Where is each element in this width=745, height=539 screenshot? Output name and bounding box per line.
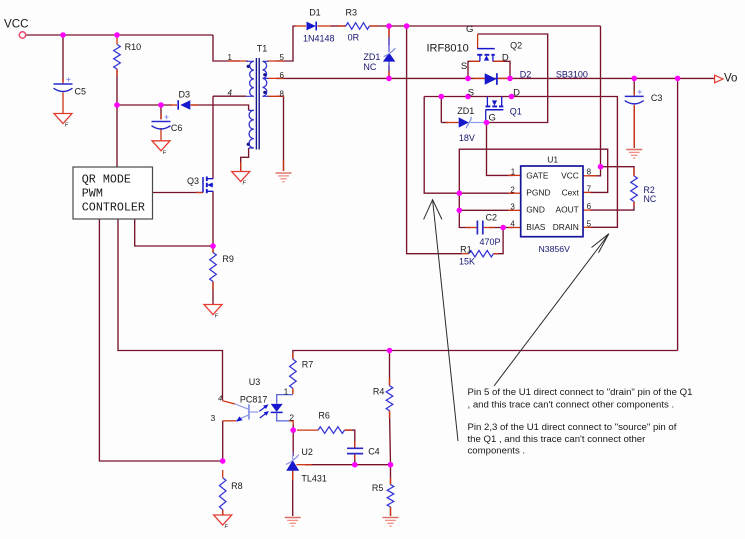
node gate line junction — [484, 120, 490, 126]
lead U1 pin 4 — [508, 227, 521, 229]
resistor R1 — [469, 250, 494, 257]
wire U1 pin1 GATE to gate line junction — [487, 123, 514, 176]
diode D1 1N4148 — [307, 22, 317, 31]
lead R9 bottom — [212, 282, 214, 291]
lead U1 pin 5 — [583, 226, 591, 228]
lead R1 right — [493, 253, 498, 255]
wire feedback line to R7 — [293, 351, 678, 360]
lead Q2 gate — [477, 34, 479, 49]
svg-text:Vo: Vo — [724, 72, 737, 84]
lead D3 anode — [191, 104, 199, 106]
wire R6 node down to TL431 cathode — [292, 430, 294, 456]
node U1 VCC junction — [598, 164, 604, 170]
lead TL431 anode — [292, 471, 294, 480]
wire TL431 ref line to R4/R5 junction — [305, 464, 391, 466]
transformer T1 phase dots — [247, 65, 250, 68]
transformer T1 primary leads — [246, 61, 254, 96]
resistor R6 — [318, 427, 344, 434]
lead U1 pin 3 — [508, 209, 521, 211]
lead R1 left — [462, 253, 469, 255]
transformer T1 primary winding pins 1-4 — [250, 61, 254, 96]
lead U1 pin 2 — [508, 192, 521, 194]
svg-text:R8: R8 — [231, 481, 243, 491]
lead C2 left — [466, 227, 477, 229]
capacitor C4 — [347, 448, 363, 453]
svg-text:GND: GND — [526, 204, 545, 214]
node Q2 drain junction — [507, 76, 513, 82]
lead R7 bottom — [292, 388, 294, 394]
ground TL431 earth — [285, 518, 301, 527]
wire VCC node right to R2 top — [601, 167, 635, 176]
wire PWM box to Q3 gate — [153, 192, 204, 194]
svg-text:R4: R4 — [373, 387, 385, 397]
node R10 bottom junction — [114, 102, 120, 108]
wire ZD1 NC vertical top lead — [388, 26, 390, 45]
lead D2 cathode — [498, 77, 507, 79]
svg-text:Cext: Cext — [562, 188, 580, 198]
lead R8 top — [222, 470, 224, 478]
node R8 junction — [220, 458, 226, 464]
wire x406 vertical from top rail down to R1 line — [407, 26, 462, 254]
svg-text:1: 1 — [511, 168, 516, 177]
svg-text:1: 1 — [284, 387, 289, 397]
resistor R8 — [219, 478, 226, 510]
svg-text:VCC: VCC — [4, 18, 28, 31]
svg-text:T1: T1 — [257, 44, 268, 54]
svg-text:6: 6 — [587, 202, 592, 211]
lead R6 left — [297, 429, 318, 431]
wire U1 pin8 VCC node — [590, 167, 601, 176]
wire TL431 anode to earth — [292, 471, 294, 516]
svg-text:BIAS: BIAS — [526, 222, 545, 232]
zener ZD1 18V — [459, 117, 484, 128]
svg-text:470P: 470P — [480, 237, 501, 247]
resistor R5 — [387, 485, 394, 507]
lead T1 pin5 — [268, 60, 285, 62]
lead T1 pin6 — [268, 77, 285, 79]
wire T1 pin 4 line — [213, 95, 246, 97]
resistor R10 — [114, 45, 121, 70]
node VCC terminal — [19, 32, 25, 38]
lead Q2 source — [470, 60, 480, 62]
wire T1 pin 5 up to D1 — [276, 26, 296, 61]
lead R4 top — [389, 378, 391, 386]
ground C5 — [54, 114, 72, 129]
arrow to source trace — [424, 200, 458, 441]
wire R1 right lead up to BIAS junction — [493, 228, 503, 254]
lead C3 bottom — [633, 105, 635, 147]
svg-text:NC: NC — [644, 194, 657, 204]
lead opto emitter — [223, 420, 236, 422]
resistor R2 — [631, 176, 638, 202]
wire D3 anode to aux winding top — [191, 105, 249, 110]
wire Q2 gate loop to gate line — [478, 34, 548, 123]
svg-text:, and this trace can't connect: , and this trace can't connect other com… — [468, 400, 675, 411]
ground C6 — [152, 141, 170, 156]
wire R9 bottom to ground — [212, 282, 214, 305]
svg-text:3: 3 — [510, 202, 515, 211]
svg-text:the Q1 , and this trace can't: the Q1 , and this trace can't connect ot… — [468, 434, 647, 445]
svg-text:N3856V: N3856V — [539, 244, 571, 254]
wire opto emitter down to R8 node — [222, 421, 224, 461]
node R4/R5 junction — [388, 462, 394, 468]
svg-text:TL431: TL431 — [301, 474, 327, 484]
TL431 U2 symbol — [286, 452, 299, 471]
node opto-2/R6 junction — [290, 427, 296, 433]
lead D3 cathode — [170, 104, 177, 106]
svg-text:6: 6 — [280, 71, 285, 80]
svg-text:D: D — [502, 53, 509, 64]
ground T1 pin8 earth — [276, 173, 292, 182]
lead Q3 gate — [196, 192, 203, 194]
wire C6 branch — [160, 105, 162, 119]
lead R3 right — [369, 25, 378, 27]
node R4 top junction — [387, 348, 393, 354]
capacitor C2 — [477, 221, 482, 235]
svg-text:2: 2 — [510, 185, 515, 194]
wire R5 junction down — [390, 465, 392, 485]
wire PWM box to opto collector line — [118, 219, 223, 401]
lead C6 top — [160, 114, 162, 120]
transformer T1 aux leads — [249, 110, 254, 148]
svg-text:5: 5 — [280, 53, 285, 62]
wire ZD1 18V left lead — [441, 122, 448, 124]
lead C5 bottom — [62, 93, 64, 114]
svg-text:SB3100: SB3100 — [556, 70, 588, 80]
svg-text:1: 1 — [228, 53, 233, 62]
resistor R7 — [290, 359, 297, 388]
wire R4 bottom to junction — [390, 411, 391, 465]
svg-text:C4: C4 — [368, 447, 380, 457]
resistor R4 — [386, 386, 393, 411]
lead opto LED cathode pin2 — [289, 421, 294, 425]
transistor Q1 IRF8010 — [486, 97, 504, 123]
wire C4 bottom to ref line — [354, 454, 356, 464]
wire R9 junction left to PWM box bottom — [135, 219, 213, 246]
opto U3 transistor — [235, 404, 258, 422]
wire C3 branch down — [633, 78, 635, 94]
node R1 feed junction — [404, 23, 410, 29]
wire R6 right lead down to C4 — [345, 430, 355, 447]
svg-text:CONTROLER: CONTROLER — [82, 200, 145, 214]
lead R5 bottom — [390, 507, 392, 516]
transformer T1 secondary bottom winding pins 6-8 — [263, 78, 267, 96]
node Q1 source junction — [465, 94, 471, 100]
capacitor C6 — [152, 115, 171, 129]
wire top rail down to U1 VCC node — [600, 26, 602, 167]
wire VCC rail down to T1 pin 1 — [213, 35, 240, 61]
svg-text:S: S — [468, 87, 474, 98]
ground R5 earth — [383, 518, 399, 527]
svg-text:U3: U3 — [249, 377, 261, 387]
svg-text:VCC: VCC — [561, 170, 579, 180]
lead D2 anode — [473, 77, 485, 79]
lead D1 anode — [295, 25, 306, 27]
transistor Q2 IRF8010 — [477, 49, 495, 62]
svg-text:QR MODE: QR MODE — [82, 172, 131, 186]
diode D3 — [178, 100, 190, 109]
svg-text:1N4148: 1N4148 — [303, 34, 335, 44]
transformer T1 secondary leads — [263, 61, 269, 96]
wire PGND junction down through GND to BIAS line — [459, 193, 471, 227]
transformer T1 core — [256, 58, 259, 150]
svg-text:DRAIN: DRAIN — [553, 222, 579, 232]
wire source trace to U1 pin 2 — [424, 97, 513, 194]
svg-text:R3: R3 — [346, 8, 358, 18]
wire aux winding bottom jog to ground — [241, 148, 249, 171]
svg-text:D3: D3 — [179, 90, 191, 100]
wire Q2 drain corner down to output line — [493, 61, 510, 78]
svg-text:R6: R6 — [318, 411, 330, 421]
svg-text:IRF8010: IRF8010 — [427, 43, 469, 55]
svg-text:Q3: Q3 — [187, 176, 199, 186]
node ZD1-18V / S-line junction — [439, 94, 445, 100]
lead R6 right — [345, 429, 353, 431]
lead opto collector — [223, 401, 236, 404]
wire opto LED cathode down to R6 node — [292, 424, 294, 430]
svg-text:U1: U1 — [547, 155, 558, 165]
svg-text:Q1: Q1 — [510, 107, 522, 117]
svg-text:Pin 2,3 of the U1 direct conne: Pin 2,3 of the U1 direct connect to "sou… — [468, 422, 677, 433]
wire R5 bottom to earth — [390, 507, 392, 516]
lead aux winding ground — [240, 162, 242, 171]
lead R4 bottom — [389, 411, 391, 418]
QR MODE PWM CONTROLER box — [73, 167, 153, 219]
svg-text:ZD1: ZD1 — [457, 106, 474, 116]
node Vo terminal arrow — [715, 75, 723, 83]
svg-text:AOUT: AOUT — [556, 204, 579, 214]
svg-text:R9: R9 — [222, 254, 234, 264]
svg-text:D2: D2 — [520, 70, 532, 80]
opto U3 LED — [271, 395, 293, 421]
svg-text:R1: R1 — [460, 245, 472, 255]
svg-text:4: 4 — [228, 89, 233, 98]
transistor Q3 — [203, 177, 213, 194]
svg-text:PC817: PC817 — [240, 395, 268, 405]
wire Cext loop: pin7 up, across, down to PGND junction — [459, 149, 607, 193]
wire R10 bottom to junction and into PWM box — [116, 69, 118, 167]
wire Q1 source-drain line — [424, 97, 617, 228]
lead U1 pin 8 — [583, 175, 597, 177]
lead C4 bottom — [354, 454, 356, 459]
node BIAS junction — [500, 225, 506, 231]
lead U1 pin 6 — [583, 209, 591, 211]
svg-text:ZD1: ZD1 — [363, 52, 380, 62]
svg-text:NC: NC — [363, 62, 376, 72]
transformer T1 secondary top winding pins 5-6 — [263, 61, 267, 78]
node R9 junction — [210, 243, 216, 249]
resistor R9 — [210, 253, 217, 282]
lead D1 cathode — [318, 25, 332, 27]
wire T1 pin 8 down to earth ground — [276, 96, 284, 171]
node PGND junction — [457, 190, 463, 196]
lead R10 top — [116, 35, 118, 45]
lead U1 pin 1 — [508, 174, 521, 176]
svg-text:4: 4 — [510, 220, 515, 229]
wire junction to D3 — [117, 104, 172, 106]
svg-text:18V: 18V — [459, 133, 475, 143]
lead R7 top — [292, 353, 294, 359]
wire PWM box left-bottom down to R8 node — [99, 219, 222, 461]
diode D2 SB3100 — [485, 73, 497, 85]
lead C6 bottom — [160, 128, 162, 140]
svg-text:U2: U2 — [301, 447, 313, 457]
lead Q2 drain — [493, 60, 504, 62]
wire T1 pin6 output line to Vo — [276, 77, 715, 79]
wire Vo feedback vertical at right — [677, 78, 679, 350]
svg-text:C2: C2 — [486, 213, 498, 223]
svg-text:S: S — [461, 61, 467, 72]
arrow to drain trace — [494, 234, 609, 386]
wire ZD1 18V anode corner to S line — [440, 97, 442, 123]
lead opto anode R7 join — [292, 389, 294, 394]
svg-text:Pin 5 of the U1 direct connect: Pin 5 of the U1 direct connect to "drain… — [468, 387, 693, 398]
svg-text:7: 7 — [587, 184, 592, 193]
svg-text:G: G — [489, 113, 496, 124]
lead R2 bottom — [633, 202, 635, 207]
lead C4 top — [354, 441, 356, 448]
svg-text:4: 4 — [218, 394, 222, 403]
ground R9 — [204, 305, 222, 320]
svg-text:8: 8 — [587, 168, 592, 177]
svg-text:5: 5 — [587, 219, 592, 228]
wire R8 to ground — [222, 510, 224, 516]
capacitor C3 — [625, 90, 644, 104]
wire Q3 source down to R9 junction — [212, 191, 214, 252]
svg-text:C3: C3 — [651, 93, 663, 103]
transformer T1 aux winding — [249, 110, 254, 148]
svg-text:GATE: GATE — [526, 170, 549, 180]
node ZD1-NC top junction — [386, 23, 392, 29]
lead ZD1 18V left — [446, 122, 459, 124]
svg-text:Q2: Q2 — [510, 41, 522, 51]
svg-text:G: G — [466, 24, 473, 35]
lead R10 bottom — [116, 69, 118, 76]
node C5/VCC junction — [60, 32, 66, 38]
wire C2 right to BIAS pin 4 — [489, 227, 513, 229]
svg-text:3: 3 — [211, 413, 216, 423]
node C3 junction — [631, 76, 637, 82]
svg-text:0R: 0R — [348, 33, 360, 43]
lead R3 left — [338, 25, 346, 27]
svg-text:C6: C6 — [171, 123, 183, 133]
lead R5 top — [390, 478, 392, 485]
svg-text:8: 8 — [280, 89, 285, 98]
svg-text:R5: R5 — [372, 483, 384, 493]
node feedback junction — [675, 76, 681, 82]
ground R8 — [214, 515, 232, 530]
lead C2 right — [483, 227, 495, 229]
opto U3 coupling arrows — [259, 404, 269, 418]
lead R9 top — [212, 246, 214, 253]
svg-text:2: 2 — [289, 412, 294, 422]
lead T1 pin1 — [228, 60, 248, 62]
node GND junction — [457, 208, 463, 214]
lead C5 top — [62, 79, 64, 84]
wire Q2 source corner down to output line — [468, 61, 480, 78]
wire D1 to R3 — [330, 25, 346, 27]
lead T1 pin8 ground — [283, 160, 285, 171]
wire C3 bottom to earth — [633, 106, 635, 148]
node R10/VCC junction — [114, 32, 120, 38]
wire ZD1 NC bottom lead — [388, 65, 390, 78]
wire R2 bottom to AOUT pin 6 — [590, 202, 634, 211]
svg-text:components .: components . — [468, 446, 526, 457]
node ZD1-NC bottom junction — [386, 76, 392, 82]
lead TL431 ref — [297, 464, 313, 466]
wire R4 top branch — [389, 351, 391, 386]
wire VCC top rail — [26, 34, 213, 36]
wire R3 to ZD1 junction and across top — [369, 25, 600, 27]
svg-text:PWM: PWM — [82, 186, 103, 200]
lead U1 pin 7 — [583, 191, 591, 193]
svg-text:15K: 15K — [459, 257, 475, 267]
svg-text:PGND: PGND — [526, 188, 550, 198]
svg-text:D1: D1 — [309, 8, 321, 18]
node C6 junction — [158, 102, 164, 108]
lead R8 bottom — [222, 510, 224, 515]
svg-text:R7: R7 — [302, 360, 314, 370]
resistor R3 — [346, 23, 370, 30]
node Q1 drain junction — [509, 94, 515, 100]
lead R2 top — [633, 168, 635, 176]
lead ZD1 NC top — [388, 26, 390, 36]
capacitor C5 — [54, 78, 73, 92]
svg-text:R10: R10 — [125, 42, 142, 52]
wire pin4 vertical down to Q3 drain — [212, 96, 214, 179]
lead C3 top — [633, 91, 635, 96]
node C4 bottom junction — [352, 462, 358, 468]
ground aux winding — [232, 172, 250, 187]
svg-text:D: D — [513, 87, 520, 98]
zener ZD1 NC — [383, 38, 395, 71]
wire GND pin 3 — [459, 209, 513, 211]
svg-text:C5: C5 — [75, 87, 87, 97]
lead ZD1 NC bottom — [388, 70, 390, 78]
ground C3 earth — [626, 150, 642, 159]
node Q2 source junction — [465, 76, 471, 82]
wire C5 branch — [62, 35, 64, 82]
lead T1 pin8 — [268, 95, 285, 97]
op-amp U1 N3856V box — [521, 166, 583, 237]
